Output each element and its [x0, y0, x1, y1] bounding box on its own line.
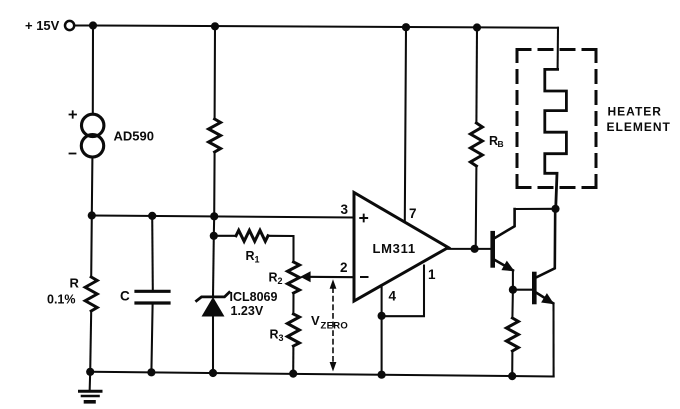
wire Q1 emitter to Q2 base node: [512, 270, 514, 289]
junction ground rail at R3: [289, 370, 297, 378]
wire R2 bottom to R3: [292, 293, 294, 314]
wire R1 left lead: [214, 235, 236, 237]
svg-text:ELEMENT: ELEMENT: [607, 120, 671, 134]
label LM311: [373, 241, 416, 256]
zener diode ICL8069: [197, 292, 230, 316]
label +15V: [25, 18, 60, 33]
resistor R 0.1%: [85, 277, 97, 311]
wire node A down to R1 node: [213, 216, 215, 236]
potentiometer R2: [288, 262, 300, 293]
junction output and RB: [471, 245, 479, 253]
wire LM311 output to Q1 base: [448, 248, 492, 249]
svg-text:+ 15V: + 15V: [25, 18, 60, 33]
label - of AD590: [70, 153, 76, 155]
wire upper resistor to node A: [213, 152, 215, 216]
wire pin 4: [381, 286, 383, 316]
wire pin 1: [382, 266, 424, 317]
junction top rail at AD590 branch: [89, 21, 97, 29]
wire R1 node down to zener: [212, 236, 215, 297]
svg-text:C: C: [120, 289, 130, 304]
wire zener to ground rail: [212, 316, 214, 373]
svg-text:7: 7: [409, 206, 417, 221]
wire capacitor top stem: [151, 216, 154, 290]
svg-text:HEATER: HEATER: [608, 105, 662, 119]
svg-text:4: 4: [389, 289, 397, 304]
wire ground rail: [90, 372, 553, 377]
label - input: [361, 276, 368, 278]
label pin 7: [409, 206, 417, 221]
junction node A at reference branch: [210, 212, 218, 220]
junction top rail at RB branch: [473, 23, 481, 31]
svg-text:ICL8069: ICL8069: [230, 290, 278, 304]
junction R1 node: [210, 232, 218, 240]
svg-text:B: B: [498, 139, 504, 149]
wire capacitor bottom stem: [151, 305, 152, 373]
wire node A down to resistor R: [90, 216, 93, 278]
label ELEMENT: [607, 120, 671, 134]
capacitor C: [136, 291, 169, 303]
svg-text:R: R: [246, 249, 255, 263]
junction node A at AD590: [88, 211, 96, 219]
label pin 2: [340, 260, 348, 275]
label AD590: [114, 129, 154, 144]
junction pins 1-4: [378, 312, 386, 320]
wire pin 7 from top rail: [405, 27, 406, 221]
label pin 3: [341, 202, 349, 217]
transistor Q1: [493, 209, 515, 271]
wire node A rail to pin 3: [92, 216, 354, 218]
junction top rail at pin7 branch: [402, 23, 410, 31]
wire Q1 collector to heater node: [515, 208, 556, 210]
svg-text:R: R: [70, 276, 80, 291]
junction ground rail at emitter resistor: [508, 372, 516, 380]
svg-text:3: 3: [341, 202, 349, 217]
label 1.23V: [231, 304, 264, 318]
transistor Q2: [513, 209, 555, 304]
dashed enclosure heater: [517, 50, 596, 188]
junction ground rail at C: [147, 368, 155, 376]
wire AD590 branch upper: [92, 26, 94, 115]
label R1: [246, 249, 260, 265]
wire emitter resistor to ground rail: [511, 351, 513, 376]
wire R to ground rail: [90, 311, 91, 372]
label pin 1: [428, 267, 436, 282]
label R3: [270, 328, 284, 344]
wire R3 to ground rail: [292, 346, 294, 374]
heater element meander: [545, 69, 567, 208]
junction heater node: [551, 205, 559, 213]
label RB: [489, 134, 504, 149]
junction ground rail at pins 1-4: [378, 371, 386, 379]
wire top rail from +15V terminal to heater corner: [75, 26, 558, 28]
wire Q2 base node to emitter resistor: [511, 290, 514, 318]
junction ground rail at zener: [209, 369, 217, 377]
wire R1 right lead to R2 top: [268, 236, 294, 262]
wire pins 1-4 to ground rail: [381, 316, 383, 375]
label 0.1%: [47, 293, 76, 307]
wire heater top corner: [557, 28, 559, 70]
resistor upper bias: [209, 119, 221, 152]
svg-text:ZERO: ZERO: [321, 321, 349, 332]
label pin 4: [389, 289, 397, 304]
junction top rail at reference branch: [211, 22, 219, 30]
svg-text:0.1%: 0.1%: [47, 293, 76, 307]
label C: [120, 289, 130, 304]
op-amp U1 LM311: [354, 193, 448, 302]
svg-text:AD590: AD590: [114, 129, 154, 144]
junction Q2 base node: [509, 286, 517, 294]
ground: [80, 372, 102, 402]
wire RB bottom lead: [475, 166, 478, 249]
label + input: [360, 215, 367, 222]
svg-text:1.23V: 1.23V: [231, 304, 264, 318]
svg-text:V: V: [311, 313, 320, 328]
resistor RB: [470, 123, 482, 166]
label R: [70, 276, 80, 291]
wire AD590 bottom to node A: [91, 158, 94, 216]
svg-text:3: 3: [279, 333, 284, 343]
node +15V terminal: [65, 21, 74, 30]
label VZERO: [311, 313, 348, 332]
svg-text:LM311: LM311: [373, 241, 416, 256]
label R2: [269, 271, 283, 287]
resistor R1: [236, 230, 268, 241]
resistor R3: [287, 314, 299, 346]
label + of AD590: [70, 111, 77, 117]
junction node A at capacitor: [148, 212, 156, 220]
svg-text:R: R: [270, 328, 279, 342]
svg-text:1: 1: [428, 267, 436, 282]
svg-text:R: R: [269, 271, 278, 285]
label HEATER: [608, 105, 662, 119]
svg-text:2: 2: [340, 260, 348, 275]
label ICL8069: [230, 290, 278, 304]
current source AD590: [81, 114, 104, 157]
wire RB top lead: [475, 28, 478, 124]
wire top rail to upper resistor: [214, 26, 216, 119]
junction ground rail at R: [86, 368, 94, 376]
resistor emitter bias: [506, 318, 518, 351]
svg-text:1: 1: [255, 255, 260, 265]
wire Q2 emitter to ground rail corner: [552, 304, 554, 377]
wiper arrow of R2 to pin 2: [300, 271, 354, 282]
svg-text:2: 2: [278, 276, 283, 286]
dashed measure line VZERO: [330, 279, 337, 371]
